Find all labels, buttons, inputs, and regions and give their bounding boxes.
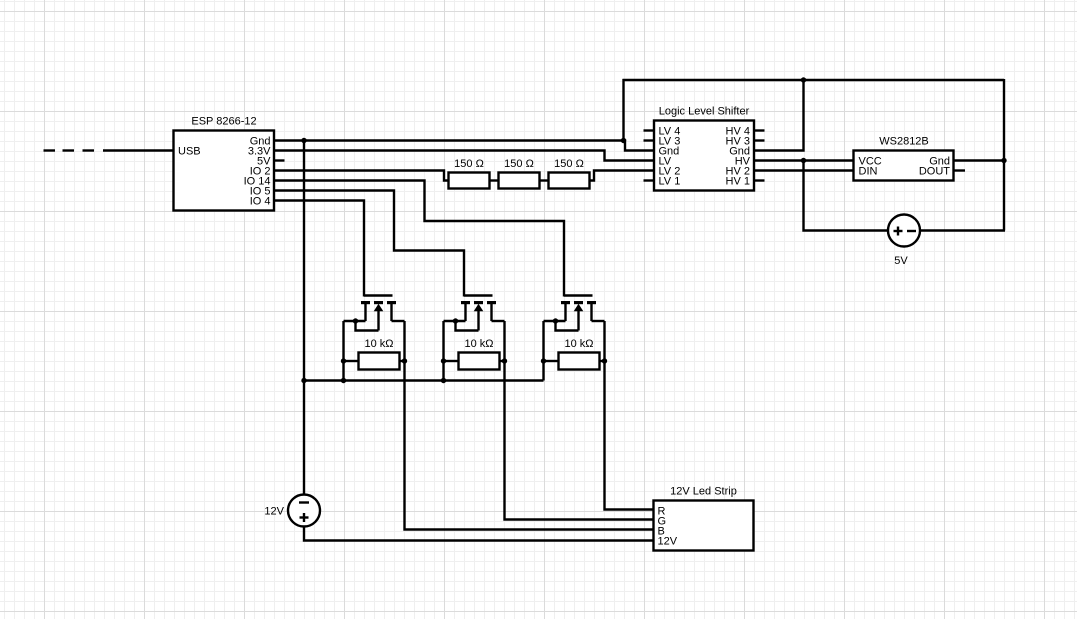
pin stub LV 1 <box>644 179 655 181</box>
wire R3 to level shifter LV2 <box>590 171 655 181</box>
wire Gnd rail to 5V source minus <box>920 229 1005 231</box>
node junction R5 left <box>441 358 446 363</box>
wire ESP IO 5 to Q2 gate <box>274 191 464 297</box>
pin stub LV 3 <box>644 139 655 141</box>
svg-text:ESP 8266-12: ESP 8266-12 <box>191 116 256 128</box>
node junction R6 left <box>541 358 546 363</box>
wire ESP IO 4 to Q1 gate <box>274 201 364 297</box>
pin stub ESP 5V <box>274 159 285 161</box>
pin stub DOUT <box>954 169 966 171</box>
chip U3 WS2812B <box>854 136 954 181</box>
wire level shifter HV2 to WS2812B DIN <box>755 169 854 171</box>
wire 12V plus to LED strip 12V <box>304 527 654 541</box>
svg-text:150 Ω: 150 Ω <box>454 158 484 170</box>
svg-text:DIN: DIN <box>859 166 878 178</box>
svg-text:IO 4: IO 4 <box>250 196 271 208</box>
node junction HV / 5V plus <box>801 158 806 163</box>
node junction ESP Gnd branch <box>301 138 306 143</box>
voltage source V2 5V <box>888 215 920 268</box>
node junction R4 right <box>402 358 407 363</box>
wire Q1 drain to LED strip <box>405 321 654 530</box>
svg-text:150 Ω: 150 Ω <box>504 158 534 170</box>
node junction bus / Gnd drop <box>301 378 306 383</box>
pin stub HV 3 <box>754 139 765 141</box>
transistor Q3 N-MOSFET <box>544 296 605 381</box>
svg-text:Logic Level Shifter: Logic Level Shifter <box>659 106 750 118</box>
node junction Gnd at level shifter <box>621 138 626 143</box>
resistor R5 10 kOhm (gate pulldown) <box>444 338 505 370</box>
resistor R2 150 Ohm <box>499 158 540 189</box>
wire 5V source plus to HV <box>804 161 889 231</box>
wire Gnd drop to 12V source minus <box>303 141 305 495</box>
wire top Gnd rail <box>623 79 1005 81</box>
node junction R6 right <box>602 358 607 363</box>
svg-text:12V: 12V <box>264 506 284 518</box>
chip U1 ESP 8266-12 <box>174 116 275 211</box>
wire Gnd riser to top rail <box>622 79 624 142</box>
wire Q3 drain to LED strip <box>605 321 654 510</box>
node junction bus Q2 source <box>441 378 446 383</box>
svg-text:10 kΩ: 10 kΩ <box>364 338 393 350</box>
node junction R5 right <box>502 358 507 363</box>
resistor R6 10 kOhm (gate pulldown) <box>544 338 605 370</box>
svg-text:USB: USB <box>178 146 201 158</box>
wire Q2 drain to LED strip <box>505 321 654 520</box>
svg-text:10 kΩ: 10 kΩ <box>564 338 593 350</box>
resistor R1 150 Ohm <box>449 158 490 189</box>
chip U4 12V Led Strip <box>654 486 754 551</box>
wire right Gnd drop <box>1003 79 1005 231</box>
transistor Q1 N-MOSFET <box>344 296 405 381</box>
svg-text:LV 1: LV 1 <box>659 176 681 188</box>
node junction WS2812B Gnd <box>1001 158 1006 163</box>
resistor R3 150 Ohm <box>549 158 590 189</box>
wire ESP IO 2 to R1 <box>274 171 449 181</box>
chip U2 Logic Level Shifter <box>654 106 754 191</box>
wire level shifter right Gnd to top rail <box>755 80 804 151</box>
wire WS2812B Gnd to right Gnd drop <box>955 159 1005 161</box>
pin stub LV 4 <box>644 129 655 131</box>
node junction bus Q1 source <box>341 378 346 383</box>
wire R2 to R3 <box>540 179 549 181</box>
pin stub HV 1 <box>754 179 765 181</box>
voltage source V1 12V <box>264 495 320 527</box>
wire ESP Gnd to level shifter Gnd (left) <box>274 141 654 151</box>
wire ESP 3.3V to level shifter LV <box>274 151 654 161</box>
node junction R4 left <box>341 358 346 363</box>
svg-text:WS2812B: WS2812B <box>879 136 929 148</box>
svg-text:10 kΩ: 10 kΩ <box>464 338 493 350</box>
svg-text:150 Ω: 150 Ω <box>554 158 584 170</box>
wire ESP IO 14 to Q3 gate <box>274 181 564 297</box>
svg-text:12V Led Strip: 12V Led Strip <box>670 486 737 498</box>
wire USB dashed lead <box>44 149 175 151</box>
node junction top rail / shifter Gnd <box>801 77 806 82</box>
svg-text:5V: 5V <box>894 255 908 267</box>
wire level shifter HV to WS2812B VCC <box>755 159 854 161</box>
svg-text:12V: 12V <box>658 536 678 548</box>
svg-text:HV 1: HV 1 <box>726 176 750 188</box>
svg-text:DOUT: DOUT <box>919 166 950 178</box>
wire R1 to R2 <box>490 179 499 181</box>
pin stub HV 4 <box>754 129 765 131</box>
resistor R4 10 kOhm (gate pulldown) <box>344 338 405 370</box>
transistor Q2 N-MOSFET <box>444 296 505 381</box>
wire source bus <box>304 379 544 381</box>
